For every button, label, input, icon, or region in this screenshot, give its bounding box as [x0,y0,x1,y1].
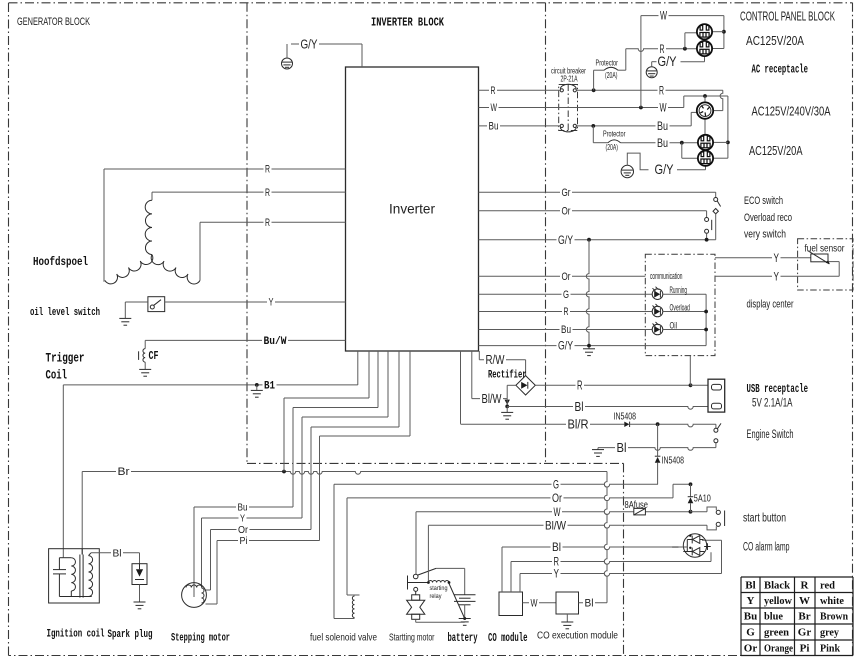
svg-text:communication: communication [650,271,683,282]
svg-text:battery: battery [448,632,478,645]
svg-text:Gr: Gr [562,187,571,199]
svg-text:IN5408: IN5408 [614,412,637,423]
svg-text:USB receptacle: USB receptacle [747,383,809,396]
svg-text:green: green [764,627,789,639]
svg-text:+: + [704,539,712,554]
svg-text:Bl/R: Bl/R [568,417,589,432]
svg-text:Bl/W: Bl/W [482,391,503,406]
svg-text:W: W [660,101,667,115]
svg-text:AC125V/20A: AC125V/20A [746,33,804,48]
svg-text:Bl: Bl [575,400,584,414]
svg-text:oil level switch: oil level switch [30,307,100,319]
svg-text:Bl: Bl [552,540,561,554]
svg-text:CO execution module: CO execution module [537,630,618,642]
svg-text:Stepping motor: Stepping motor [171,633,230,645]
svg-text:Pi: Pi [800,643,810,655]
svg-text:G/Y: G/Y [558,233,573,247]
svg-text:(20A): (20A) [605,70,618,80]
svg-text:Y: Y [774,251,780,265]
svg-text:Overload: Overload [670,303,691,313]
svg-text:W: W [531,597,538,609]
svg-text:R: R [564,306,569,318]
svg-text:Black: Black [764,580,791,592]
svg-text:Trigger: Trigger [46,352,85,366]
svg-text:Hoofdspoel: Hoofdspoel [33,255,88,269]
svg-text:GENERATOR BLOCK: GENERATOR BLOCK [17,16,90,28]
svg-text:Pi: Pi [240,535,248,547]
svg-text:Bu: Bu [561,324,571,336]
svg-text:Y: Y [747,595,755,607]
svg-text:ECO switch: ECO switch [744,195,783,207]
svg-text:CONTROL PANEL BLOCK: CONTROL PANEL BLOCK [740,9,835,24]
svg-text:G: G [563,289,569,301]
svg-text:G/Y: G/Y [655,161,675,177]
svg-text:Brown: Brown [820,611,848,623]
svg-text:R: R [491,85,496,97]
svg-text:Startting motor: Startting motor [389,632,435,644]
svg-text:Spark plug: Spark plug [108,629,153,641]
svg-text:Bl: Bl [585,597,594,609]
svg-text:5V 2.1A/1A: 5V 2.1A/1A [752,398,793,410]
svg-text:G: G [553,477,559,491]
svg-text:white: white [820,595,844,607]
svg-text:R: R [659,83,664,97]
svg-text:CO alarm lamp: CO alarm lamp [743,542,790,554]
svg-text:Protector: Protector [603,129,626,139]
svg-text:Bl: Bl [745,580,755,592]
svg-text:Orange: Orange [764,643,793,655]
svg-text:Or: Or [562,271,571,283]
svg-text:Ignition coil: Ignition coil [47,629,105,641]
svg-text:starting: starting [430,585,448,592]
svg-text:G/Y: G/Y [301,37,319,51]
svg-text:Br: Br [798,611,810,623]
svg-text:Engine Switch: Engine Switch [747,429,794,441]
svg-text:G: G [746,627,755,639]
svg-text:AC125V/240V/30A: AC125V/240V/30A [752,104,831,119]
svg-text:AC125V/20A: AC125V/20A [749,143,803,158]
svg-text:W: W [660,9,667,23]
svg-text:R/W: R/W [486,352,506,367]
svg-text:Bu: Bu [657,119,668,133]
svg-text:2P-21A: 2P-21A [561,74,578,84]
svg-text:Bu: Bu [489,121,499,133]
svg-text:G/Y: G/Y [658,53,678,69]
svg-text:Overload reco: Overload reco [744,212,792,224]
svg-text:Coil: Coil [46,369,68,383]
svg-text:R: R [265,217,270,229]
svg-text:Bl: Bl [113,547,122,559]
svg-text:red: red [820,580,835,592]
svg-text:grey: grey [820,627,839,639]
svg-text:W: W [554,505,561,519]
svg-text:Bl/W: Bl/W [545,518,567,532]
svg-text:Inverter: Inverter [389,201,435,217]
svg-text:Br: Br [118,466,130,478]
svg-text:R: R [577,379,583,393]
svg-text:blue: blue [764,611,783,623]
svg-text:fuel solenoid valve: fuel solenoid valve [310,632,377,644]
svg-text:INVERTER BLOCK: INVERTER BLOCK [371,16,445,30]
svg-text:Bu: Bu [744,611,757,623]
svg-text:8Afuse: 8Afuse [625,500,649,511]
svg-text:Bu: Bu [657,136,668,150]
svg-text:relay: relay [430,593,443,600]
svg-text:R: R [801,580,810,592]
svg-text:Oil: Oil [670,321,678,331]
svg-text:Bu/W: Bu/W [264,336,287,348]
svg-text:W: W [491,102,498,114]
svg-text:B1: B1 [264,381,275,393]
svg-text:CO module: CO module [488,632,528,645]
svg-text:Running: Running [670,285,688,295]
svg-text:CF: CF [149,350,159,363]
svg-text:Y: Y [269,297,274,309]
svg-text:Or: Or [562,206,571,218]
svg-text:W: W [799,595,810,607]
svg-text:5A10: 5A10 [694,494,711,505]
svg-text:Or: Or [744,643,758,655]
svg-text:(20A): (20A) [606,142,619,152]
svg-text:display center: display center [747,299,794,311]
svg-text:Pink: Pink [820,643,841,655]
svg-text:Y: Y [554,567,560,581]
svg-text:Or: Or [552,491,562,505]
svg-text:−: − [672,540,680,555]
svg-text:R: R [265,164,270,176]
svg-text:start button: start button [743,513,786,525]
svg-text:IN5408: IN5408 [662,456,685,467]
svg-text:Protector: Protector [596,58,619,68]
svg-text:Y: Y [774,269,780,283]
svg-text:Rectifier: Rectifier [488,370,527,382]
svg-text:Gr: Gr [798,627,812,639]
svg-text:very switch: very switch [744,229,786,241]
svg-text:yellow: yellow [764,595,792,607]
svg-text:AC receptacle: AC receptacle [752,64,809,77]
svg-text:G/Y: G/Y [558,339,573,353]
svg-text:Y: Y [240,513,245,525]
svg-text:Bl: Bl [617,440,627,455]
svg-text:R: R [265,187,270,199]
